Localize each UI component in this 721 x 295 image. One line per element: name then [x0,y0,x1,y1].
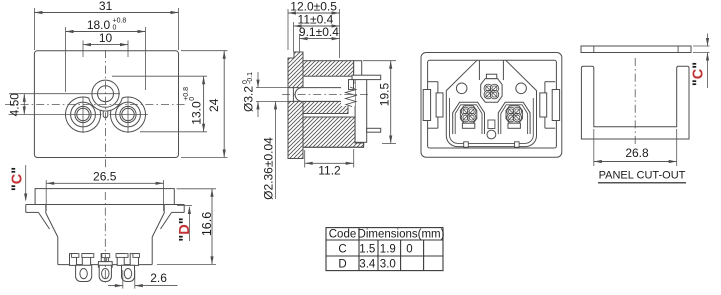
svg-text:18.0: 18.0 [87,18,111,32]
svg-text:0: 0 [113,25,117,32]
svg-text:26.8: 26.8 [625,146,649,160]
svg-text:11.2: 11.2 [318,164,341,178]
section view: white patch under spring [341,84,355,106]
rear view: center slot [488,120,495,129]
dimension diameter 2.36 leader [275,101,277,199]
rear view: left clip steps [428,81,438,83]
panel cut-out: panel bar dividers [593,46,595,53]
rear view: left clip inner rect [436,93,443,117]
dimension 9.1 extension line [299,34,301,52]
rear view: upper right circle [516,83,527,94]
section view: lower body block hatched [303,117,364,147]
bottom view: body bottom edge [58,264,152,266]
section view: top contact vertical leg [349,80,354,90]
section view: bore rounded end [295,88,301,102]
dimension 4.50 arrows [23,94,25,115]
section view: section axis centerline [282,94,368,96]
svg-text:2.6: 2.6 [150,271,167,285]
label D extension line [177,205,192,207]
right pin hole rings [116,102,141,127]
dimension 13.0 +0.8/0 [203,76,205,132]
panel cut-out: U channel outline [581,66,689,139]
top pin horizontal crosshair / 4.50 extension line [9,93,120,95]
bottom view: terminal 1 lug with hole [76,265,92,281]
svg-text:"C": "C" [10,167,26,191]
caption underline [598,182,686,184]
rear view: top screw cross recess [484,84,493,93]
rear view: left terminal block with screw [453,102,485,134]
svg-text:Ø3.2: Ø3.2 [241,86,255,112]
section view: bore countersink vertical line [292,88,294,102]
rear view: right terminal block with screw [498,102,530,134]
svg-text:26.5: 26.5 [93,170,117,184]
svg-text:PANEL CUT-OUT: PANEL CUT-OUT [599,170,686,182]
table: dimensions table grid [326,228,443,271]
rear view: left clip outer rect [423,90,430,121]
bottom view: terminal 2 stem [101,254,108,262]
svg-text:31: 31 [99,0,113,13]
svg-text:1.9: 1.9 [380,243,396,255]
front view vertical centerline [105,50,107,170]
svg-text:4.50: 4.50 [7,93,21,117]
svg-text:+0.8: +0.8 [113,18,127,25]
right pin vertical crosshair [127,97,129,134]
svg-text:0: 0 [406,243,412,255]
dimension diameter 3.2 arrows [257,72,259,88]
svg-text:"D": "D" [177,217,193,241]
section view: upper wall hatched [303,61,354,76]
bottom view: left body side below flange [45,205,47,214]
svg-text:3.0: 3.0 [380,258,396,270]
rear view: shield outline [446,60,536,146]
side pins horizontal crosshair left segment [9,114,102,116]
rear view: outer body outline [421,53,562,158]
rear view: top screw housing octagon [481,79,502,103]
rear view: upper left circle [456,83,467,94]
panel cut-out: vertical centerline [634,58,636,145]
svg-text:-0.1: -0.1 [247,72,254,84]
left pin hole rings [71,102,96,127]
bottom view: flange rect [35,189,174,205]
rear view: right clip inner rect [540,93,547,117]
bottom view: vertical centerline [104,192,106,283]
rear view: top housing notch [486,74,496,78]
bottom view: left clip profile [26,204,35,206]
svg-text:19.5: 19.5 [377,82,391,106]
label C red leader (bottom view) [25,165,27,200]
dimension 18.0 extension lines [65,27,67,92]
left pin vertical crosshair [82,97,84,134]
rear view: right clip steps [545,81,555,83]
section view: contact carrier white slab [355,76,367,142]
bottom view: terminal 1 prongs [70,254,77,266]
dimension 11.2 [305,162,354,164]
rear view: left terminal slot on floor [464,142,469,147]
dimension 26.5 [46,182,163,184]
dimension 11.2 extension lines [304,150,306,168]
front view: connector body outline [34,51,178,158]
dimension 11±0.4 [294,25,340,27]
section view: top terminal pin [352,75,381,79]
dimension 26.8 extension lines [593,129,595,166]
bottom view: right clip profile [174,204,184,206]
cloverleaf recess outline [66,97,146,132]
svg-text:0: 0 [189,97,196,101]
dimension 31 [34,12,178,14]
rear view: center bottom hole [487,130,496,139]
svg-text:3.4: 3.4 [359,258,376,270]
svg-text:Ø2.36±0.04: Ø2.36±0.04 [262,137,276,200]
svg-text:1.5: 1.5 [359,243,375,255]
svg-text:24: 24 [207,98,221,112]
dimension 2.6 [108,285,123,287]
dimension 10 [83,44,128,46]
svg-text:D: D [338,258,346,270]
dimension 31 extension lines [33,8,35,50]
dimension 13.0 extension lines [112,75,207,77]
svg-text:Code: Code [329,228,357,240]
svg-text:"C": "C" [690,62,706,86]
dimension 26.8 [594,161,677,163]
section view: contact spring zigzag [346,87,357,107]
dimension 16.6 [211,189,213,265]
rear view: inner face outline [428,60,557,148]
bottom view: terminal 2 lug with hole [99,265,111,281]
dimension 16.6 extension lines [177,188,217,190]
panel cut-out: panel bar [581,46,691,53]
label D leader [188,207,190,241]
section view: upper right white block [354,61,362,76]
dimension 11 extension line [293,22,295,52]
rear view: top center column [478,60,480,80]
dimension 10 extension lines [82,41,84,58]
svg-text:9.1±0.4: 9.1±0.4 [299,25,339,39]
dimension 24 [223,51,225,158]
top pin hole rings [92,80,119,107]
bottom view: terminal 3 prongs [117,254,124,266]
svg-text:13.0: 13.0 [190,101,204,125]
dimension diameter 3.2 extension lines [256,87,289,89]
side pins horizontal crosshair right segment [110,114,149,116]
dimension 19.5 extension lines [363,60,396,62]
dimension 12.0 extension lines [287,9,289,50]
bottom view: terminal 3 lug with hole [122,265,135,281]
dimension 24 extension lines [181,50,228,52]
svg-text:Dimensions(mm): Dimensions(mm) [358,228,445,240]
rear view: shield inner offset line [449,98,533,143]
dimension 18.0 +0.8/0 [66,31,146,33]
dimension 19.5 [390,61,392,144]
panel thickness C extension lines [693,45,710,47]
dimension 9.1±0.4 [300,38,340,40]
dimension 26.5 extension lines [45,180,47,211]
panel thickness C dimension arrows [707,34,709,47]
section view: lower wall hatched [303,101,348,113]
front view horizontal centerline [5,103,186,105]
section view: bottom terminal pin [367,128,381,132]
section view: center bore white slot [289,88,342,102]
bottom view: right body side below flange [163,205,165,214]
dimension 12.0±0.5 [288,12,340,14]
rear view: right terminal slot on floor [515,142,520,147]
section view: flange cross-section hatched [288,52,303,159]
svg-text:10: 10 [99,31,113,45]
svg-text:12.0±0.5: 12.0±0.5 [290,0,337,14]
svg-text:C: C [338,243,346,255]
rear view: right clip outer rect [552,90,559,121]
svg-text:16.6: 16.6 [200,212,214,236]
dimension 2.6 extension lines [122,270,124,289]
